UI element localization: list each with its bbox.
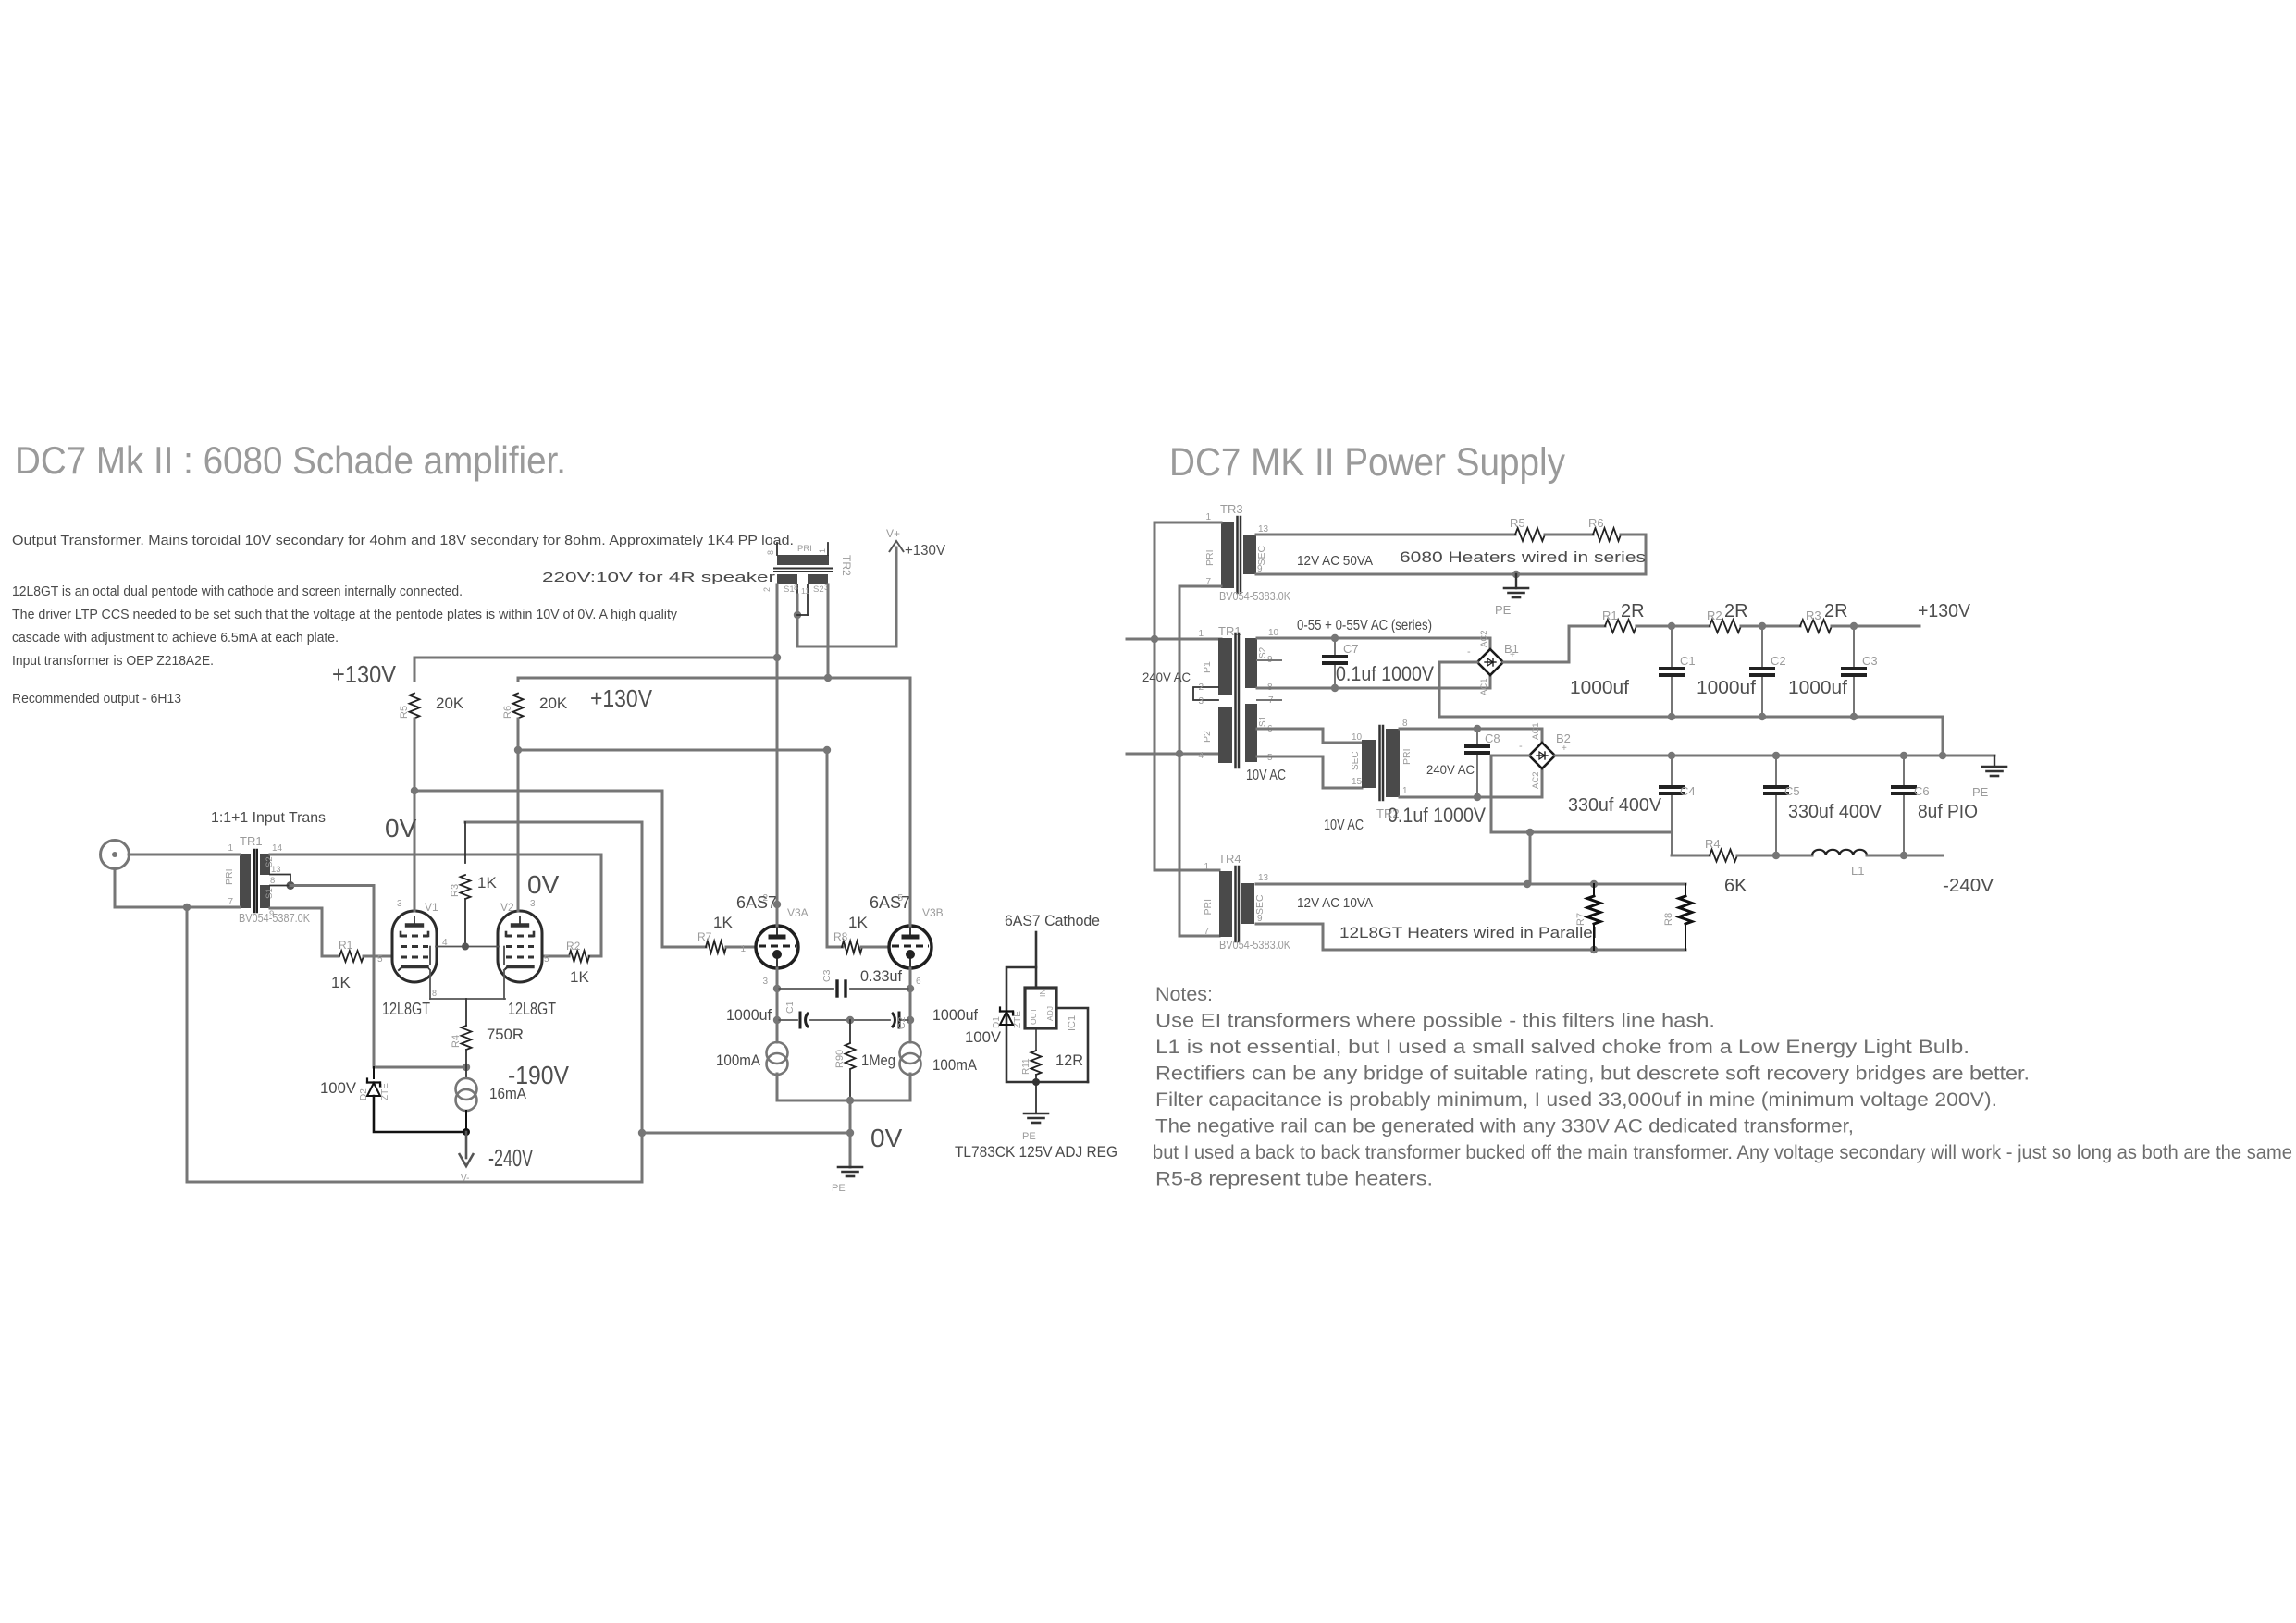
svg-text:1000uf: 1000uf [1788,678,1847,698]
svg-text:PE: PE [1972,785,1989,799]
svg-text:330uf 400V: 330uf 400V [1788,802,1882,822]
svg-text:+130V: +130V [590,684,653,712]
svg-text:0V: 0V [385,814,417,842]
svg-text:S2: S2 [813,584,824,595]
svg-text:240V AC: 240V AC [1142,670,1191,684]
svg-text:1: 1 [1205,512,1211,523]
svg-text:OUT: OUT [1029,1008,1038,1025]
svg-text:R2: R2 [566,940,581,953]
svg-text:-240V: -240V [488,1144,533,1172]
svg-text:20K: 20K [436,695,464,712]
svg-text:1:1+1 Input Trans: 1:1+1 Input Trans [211,810,326,826]
svg-text:PE: PE [1495,603,1512,617]
svg-text:10: 10 [1268,628,1279,638]
svg-text:C8: C8 [1485,732,1500,745]
svg-text:1: 1 [1198,629,1204,639]
svg-text:12L8GT: 12L8GT [508,1000,556,1018]
svg-text:+: + [1510,650,1515,660]
svg-text:C3: C3 [1862,654,1878,668]
svg-text:0V: 0V [870,1124,903,1152]
svg-text:12V AC 50VA: 12V AC 50VA [1297,553,1373,569]
svg-text:2: 2 [1198,682,1204,693]
svg-text:V3A: V3A [787,906,809,919]
svg-text:PE: PE [832,1183,846,1194]
svg-text:0.33uf: 0.33uf [860,967,902,985]
svg-text:-240V: -240V [1943,876,1994,896]
svg-text:2: 2 [762,893,768,904]
svg-text:DC7 MK II Power Supply: DC7 MK II Power Supply [1169,441,1566,485]
svg-text:TR3: TR3 [1220,502,1243,516]
svg-text:R5: R5 [1510,516,1525,530]
svg-text:12V AC 10VA: 12V AC 10VA [1297,895,1373,911]
svg-text:+130V: +130V [905,543,945,559]
svg-text:IN: IN [1038,990,1047,998]
svg-text:R5: R5 [399,706,410,719]
svg-text:6AS7: 6AS7 [736,893,777,912]
svg-text:P1: P1 [1202,661,1213,673]
svg-text:Filter capacitance is probably: Filter capacitance is probably minimum, … [1155,1089,1997,1111]
svg-text:3: 3 [530,899,536,909]
svg-text:15: 15 [1352,777,1363,787]
svg-text:R3: R3 [450,884,461,897]
svg-text:12R: 12R [1055,1051,1083,1069]
svg-text:1: 1 [1204,862,1209,872]
svg-text:1K: 1K [848,914,868,931]
svg-text:TR4: TR4 [1218,852,1241,866]
svg-text:The negative rail can be gener: The negative rail can be generated with … [1155,1116,1854,1137]
svg-text:Notes:: Notes: [1155,984,1213,1005]
svg-text:9: 9 [1257,914,1263,924]
svg-text:TR2: TR2 [840,555,853,576]
svg-text:1K: 1K [570,968,589,986]
svg-text:PRI: PRI [797,544,812,554]
svg-text:100V: 100V [965,1028,1002,1046]
svg-text:10V AC: 10V AC [1246,768,1286,783]
svg-text:SEC: SEC [1254,894,1265,915]
svg-text:AC1: AC1 [1531,723,1541,740]
svg-text:PRI: PRI [1204,549,1216,566]
svg-text:+130V: +130V [1918,601,1971,621]
svg-text:C6: C6 [1914,784,1930,798]
svg-text:R6: R6 [502,706,513,719]
svg-text:2R: 2R [1824,601,1848,621]
svg-text:C4: C4 [1680,784,1696,798]
svg-text:9: 9 [1257,564,1263,574]
svg-text:SEC: SEC [1351,751,1361,770]
svg-text:10V AC: 10V AC [1324,818,1364,833]
svg-text:S1: S1 [784,584,795,595]
svg-text:1000uf: 1000uf [726,1006,772,1024]
svg-text:PRI: PRI [224,868,235,885]
svg-text:1K: 1K [713,914,733,931]
svg-text:BV054-5383.0K: BV054-5383.0K [1219,589,1290,603]
svg-text:13: 13 [1258,524,1269,535]
svg-text:PRI: PRI [1203,899,1214,916]
svg-text:1K: 1K [477,874,497,891]
svg-text:0.1uf 1000V: 0.1uf 1000V [1336,662,1434,685]
svg-text:R1: R1 [1602,609,1618,622]
svg-text:4: 4 [1198,751,1204,761]
svg-text:Recommended output - 6H13: Recommended output - 6H13 [12,691,181,707]
svg-text:1: 1 [228,843,233,854]
svg-text:5: 5 [897,893,903,904]
svg-text:1000uf: 1000uf [932,1006,978,1024]
svg-text:V2: V2 [500,901,514,914]
svg-text:but I used a back to back tran: but I used a back to back transformer bu… [1153,1142,2292,1163]
svg-text:8: 8 [766,550,775,555]
svg-text:7: 7 [1204,927,1209,937]
svg-text:100mA: 100mA [716,1051,761,1069]
svg-text:C3: C3 [821,969,833,982]
svg-text:20K: 20K [539,695,568,712]
svg-text:V1: V1 [425,901,438,914]
svg-text:C2: C2 [896,1016,907,1029]
svg-text:6: 6 [916,977,921,987]
svg-text:BV054-5383.0K: BV054-5383.0K [1219,938,1290,952]
svg-text:8: 8 [794,583,798,592]
svg-text:16mA: 16mA [489,1085,527,1102]
svg-text:R8: R8 [1663,913,1674,926]
svg-text:C7: C7 [1343,642,1359,656]
svg-text:-: - [1467,646,1471,658]
svg-text:SEC: SEC [1256,545,1267,565]
svg-text:C1: C1 [784,1001,796,1014]
svg-text:8uf PIO: 8uf PIO [1918,802,1978,822]
svg-text:R5-8 represent tube heaters.: R5-8 represent tube heaters. [1155,1169,1433,1190]
svg-text:R11: R11 [1021,1058,1031,1075]
svg-text:ADJ: ADJ [1045,1006,1055,1021]
svg-text:+130V: +130V [332,660,397,688]
svg-text:Use EI transformers where poss: Use EI transformers where possible - thi… [1155,1011,1715,1032]
svg-text:6080 Heaters wired in series: 6080 Heaters wired in series [1400,548,1646,566]
svg-text:3: 3 [397,899,402,909]
svg-text:7: 7 [228,897,233,907]
svg-text:13: 13 [1258,873,1269,883]
svg-text:R90: R90 [834,1050,846,1068]
svg-text:AC2: AC2 [1479,631,1489,647]
svg-text:6AS7 Cathode: 6AS7 Cathode [1005,912,1100,929]
svg-text:8: 8 [432,989,437,998]
svg-text:220V:10V for 4R speaker: 220V:10V for 4R speaker [542,570,775,585]
svg-text:PRI: PRI [1401,748,1413,765]
svg-text:1Meg: 1Meg [861,1051,895,1069]
svg-text:12L8GT: 12L8GT [382,1000,430,1018]
svg-text:BV054-5387.0K: BV054-5387.0K [239,911,310,925]
svg-text:2: 2 [762,587,772,592]
svg-text:6K: 6K [1724,876,1747,896]
svg-text:1: 1 [740,944,746,954]
svg-text:ZTE: ZTE [380,1083,390,1100]
svg-text:0.1uf 1000V: 0.1uf 1000V [1388,804,1486,827]
svg-text:750R: 750R [487,1026,524,1043]
svg-text:V-: V- [461,1174,469,1184]
svg-text:AC2: AC2 [1531,772,1541,789]
svg-text:Input transformer is OEP Z218A: Input transformer is OEP Z218A2E. [12,653,214,669]
svg-text:AC1: AC1 [1479,679,1489,695]
svg-text:R4: R4 [1705,837,1721,851]
svg-text:R2: R2 [1707,609,1722,622]
svg-text:IC1: IC1 [1067,1015,1078,1031]
svg-text:12L8GT Heaters wired in Parall: 12L8GT Heaters wired in Parallel [1339,924,1597,941]
svg-text:12L8GT is an octal dual pentod: 12L8GT is an octal dual pentode with cat… [12,584,463,599]
svg-text:100mA: 100mA [932,1056,978,1074]
svg-text:ZTE: ZTE [1013,1011,1023,1028]
svg-text:6AS7: 6AS7 [870,893,910,912]
svg-text:R8: R8 [833,930,848,943]
svg-text:+: + [1562,744,1567,754]
svg-text:DC7 Mk II : 6080 Schade amplif: DC7 Mk II : 6080 Schade amplifier. [15,438,566,482]
svg-text:1000uf: 1000uf [1570,678,1629,698]
svg-text:PE: PE [1022,1131,1036,1142]
svg-text:5: 5 [544,954,549,965]
svg-text:3: 3 [1198,696,1204,707]
svg-text:240V AC: 240V AC [1426,762,1475,777]
svg-text:330uf 400V: 330uf 400V [1568,795,1662,816]
svg-text:Output Transformer. Mains toro: Output Transformer. Mains toroidal 10V s… [12,533,794,548]
svg-text:3: 3 [762,977,768,987]
svg-text:C1: C1 [1680,654,1696,668]
svg-text:TL783CK 125V ADJ REG: TL783CK 125V ADJ REG [955,1143,1117,1161]
svg-text:8: 8 [270,876,275,886]
svg-text:C2: C2 [1771,654,1786,668]
svg-text:D2: D2 [359,1088,369,1100]
svg-text:V3B: V3B [922,906,944,919]
svg-text:2R: 2R [1724,601,1748,621]
svg-text:R4: R4 [451,1035,462,1048]
svg-text:2R: 2R [1621,601,1645,621]
svg-text:TR1: TR1 [240,834,263,848]
svg-text:5: 5 [377,954,383,965]
svg-text:14: 14 [272,843,283,854]
svg-text:cascade with adjustment to ach: cascade with adjustment to achieve 6.5mA… [12,630,339,646]
svg-text:-: - [1519,741,1523,752]
svg-text:1K: 1K [331,974,351,991]
svg-text:13: 13 [271,865,281,875]
svg-text:R6: R6 [1588,516,1604,530]
svg-text:L1: L1 [1851,864,1864,878]
svg-text:0-55 + 0-55V AC (series): 0-55 + 0-55V AC (series) [1297,618,1432,633]
svg-text:V+: V+ [886,527,900,540]
svg-text:P2: P2 [1202,731,1213,743]
svg-text:100V: 100V [320,1079,357,1097]
svg-text:R7: R7 [697,930,712,943]
svg-text:0V: 0V [527,870,560,899]
svg-text:The driver LTP CCS needed to b: The driver LTP CCS needed to be set such… [12,607,677,622]
svg-text:S1: S1 [265,888,275,899]
svg-text:D1: D1 [992,1016,1002,1028]
svg-text:L1 is not essential, but I use: L1 is not essential, but I used a small … [1155,1037,1969,1058]
svg-text:1: 1 [818,548,827,553]
svg-text:R1: R1 [339,939,353,952]
svg-text:C5: C5 [1784,784,1800,798]
svg-text:10: 10 [1352,732,1363,743]
svg-text:8: 8 [1402,719,1408,729]
svg-text:Rectifiers can be any bridge o: Rectifiers can be any bridge of suitable… [1155,1064,2030,1085]
svg-text:R7: R7 [1575,913,1586,926]
svg-text:1: 1 [1402,786,1408,796]
svg-text:R3: R3 [1806,609,1821,622]
svg-text:11: 11 [801,586,809,596]
svg-text:1000uf: 1000uf [1697,678,1756,698]
